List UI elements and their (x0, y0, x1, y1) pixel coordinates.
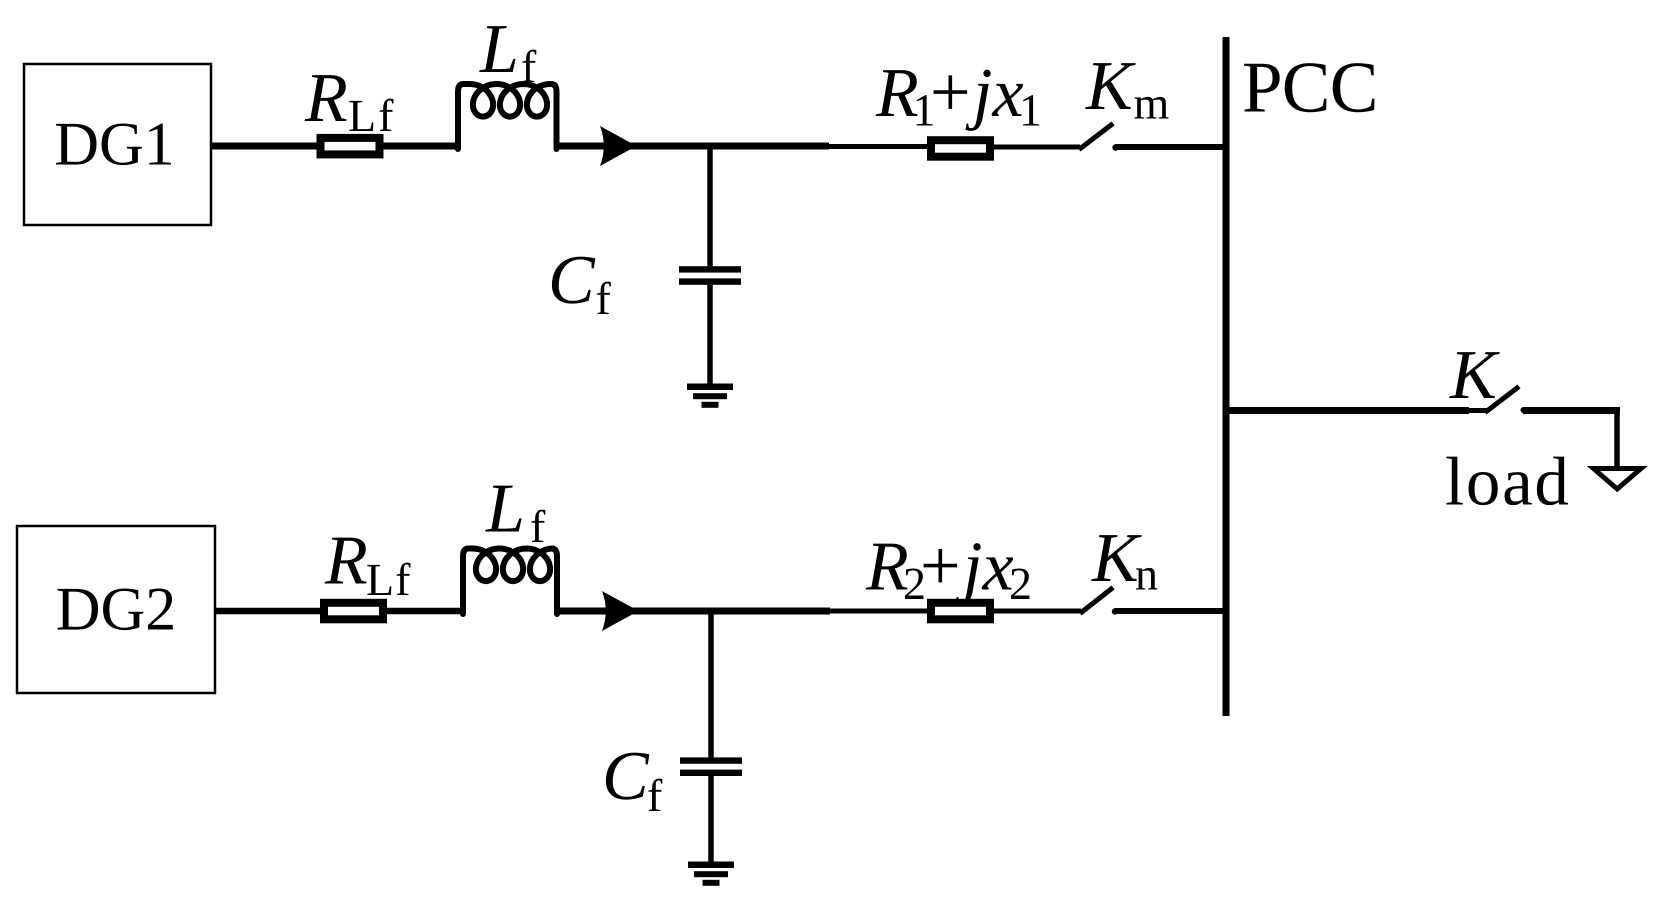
PCC bus bar (1223, 37, 1230, 716)
svg-text:DG2: DG2 (56, 576, 177, 644)
wire DG2 to RLf (215, 608, 324, 615)
svg-text:C: C (602, 738, 650, 815)
svg-text:Lf: Lf (366, 554, 411, 605)
svg-text:2: 2 (1009, 558, 1032, 609)
wire arrow to node A (630, 143, 829, 150)
svg-text:L: L (479, 11, 519, 88)
switch Km contact and wire to PCC bus (1112, 144, 1118, 150)
wire node A to R1 (829, 144, 927, 149)
DG1 source box (24, 64, 211, 225)
svg-text:load: load (1445, 444, 1571, 520)
wire capacitor to ground (DG2 branch) (708, 776, 714, 862)
svg-text:+: + (920, 525, 961, 605)
svg-text:f: f (647, 770, 663, 821)
inductor Lf (DG2 branch) (463, 549, 557, 615)
current arrowhead (DG2 branch) (602, 591, 639, 631)
svg-text:C: C (548, 242, 596, 319)
svg-text:1: 1 (1019, 84, 1042, 135)
capacitor Cf (DG1 branch) (679, 266, 741, 272)
DG2 source box (17, 526, 215, 693)
svg-text:f: f (521, 41, 537, 92)
wire Lf to node, with current arrow (557, 608, 606, 615)
svg-text:f: f (596, 273, 612, 324)
ground (DG1 branch) (687, 384, 733, 391)
wire node to capacitor (DG2 branch) (708, 611, 714, 757)
inductor Lf (DG1 branch) (458, 84, 557, 149)
switch Kn blade (1080, 588, 1113, 614)
capacitor Cf (DG2 branch) (680, 757, 742, 763)
svg-text:+: + (930, 52, 971, 132)
wire node B to R2 (830, 609, 927, 614)
svg-text:m: m (1134, 78, 1170, 129)
wire arrow to node B (632, 608, 830, 615)
svg-text:K: K (1085, 48, 1136, 125)
wire down to load terminal (1614, 411, 1620, 468)
wire Lf to node, with current arrow (557, 143, 605, 150)
svg-text:jx: jx (965, 55, 1024, 132)
svg-text:R: R (304, 60, 348, 137)
wire PCC to switch K (1229, 407, 1469, 414)
wire DG1 to RLf (211, 143, 320, 150)
wire capacitor to ground (DG1 branch) (707, 285, 713, 384)
svg-text:K: K (1449, 337, 1500, 414)
resistor RLf (DG1 branch) (321, 138, 380, 155)
resistor R1+jx1 (line impedance) (931, 140, 990, 157)
switch Kn contact and wire to PCC bus (1112, 608, 1118, 614)
switch K contact and wire to load (1521, 407, 1527, 413)
current arrowhead (DG1 branch) (600, 126, 637, 166)
ground (DG2 branch) (688, 862, 734, 869)
switch K blade (1485, 387, 1519, 413)
resistor RLf (DG2 branch) (324, 603, 383, 620)
wire RLf to Lf (384, 143, 461, 150)
resistor R2+jx2 (line impedance) (931, 603, 990, 620)
switch Km blade (1079, 124, 1113, 150)
svg-text:R: R (324, 523, 368, 600)
load terminal triangle (1594, 469, 1642, 490)
wire R1 to switch Km (994, 145, 1080, 150)
svg-text:L: L (485, 471, 525, 548)
svg-text:Lf: Lf (348, 90, 395, 141)
wire R2 to switch Kn (994, 609, 1081, 614)
svg-text:f: f (530, 501, 546, 552)
svg-text:jx: jx (955, 528, 1014, 605)
svg-text:n: n (1135, 549, 1158, 600)
svg-text:PCC: PCC (1242, 47, 1378, 128)
wire node to capacitor (DG1 branch) (707, 146, 713, 266)
svg-text:DG1: DG1 (54, 110, 175, 178)
wire RLf to Lf (387, 608, 463, 615)
